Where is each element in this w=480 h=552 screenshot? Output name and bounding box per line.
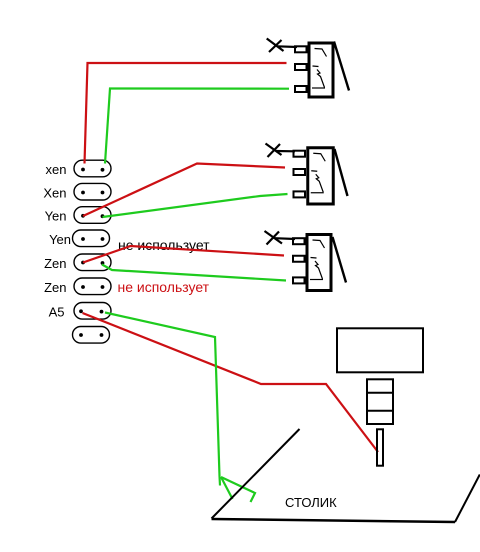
no-connect X mark S2 [266, 144, 296, 158]
wire red J5 to S3 middle pin [83, 246, 284, 263]
wire red J1 to S1 middle pin [85, 63, 287, 164]
svg-text:не использует: не использует [118, 279, 210, 295]
table edge left diagonal [212, 429, 300, 519]
connector J6 Zen [74, 278, 111, 295]
table edge right diagonal [455, 475, 480, 523]
svg-text:A5: A5 [49, 305, 65, 320]
connector J1 xen [74, 160, 111, 177]
wire green arrow barb 2 [221, 477, 255, 502]
wire red J3 to S2 middle pin [83, 164, 285, 217]
switch S1 [295, 42, 349, 98]
no-connect X mark S3 [265, 231, 296, 245]
wire green J5 to S3 bottom pin [102, 265, 286, 281]
svg-text:Zen: Zen [44, 256, 66, 271]
switch S2 [294, 148, 348, 204]
svg-text:Xen: Xen [43, 185, 66, 200]
svg-text:Yen: Yen [45, 209, 67, 224]
wire green J1 to S1 bottom pin [105, 89, 289, 164]
wire red J7 to pedal [83, 313, 379, 452]
svg-text:Yen: Yen [49, 232, 71, 247]
connector J3 Yen [74, 207, 111, 224]
wire green J7 to table arrow [105, 313, 220, 486]
wire green J3 to S2 bottom pin [103, 194, 288, 217]
connector J7 A5 [74, 303, 111, 320]
switch S3 [293, 235, 346, 291]
connector J4 Yen [73, 230, 110, 247]
connector J2 Xen [74, 183, 111, 200]
needle bar thin box [377, 429, 383, 465]
no-connect X mark S1 [267, 39, 297, 53]
wire green arrow barb 1 [221, 477, 233, 499]
machine head box [337, 328, 423, 372]
machine body stacked box [366, 379, 394, 424]
connector J5 Zen [74, 254, 111, 271]
svg-text:xen: xen [46, 162, 67, 177]
svg-text:СТОЛИК: СТОЛИК [285, 495, 337, 510]
table edge bottom [212, 519, 456, 522]
svg-text:Zen: Zen [44, 280, 66, 295]
connector J8 unlabeled [73, 327, 110, 344]
